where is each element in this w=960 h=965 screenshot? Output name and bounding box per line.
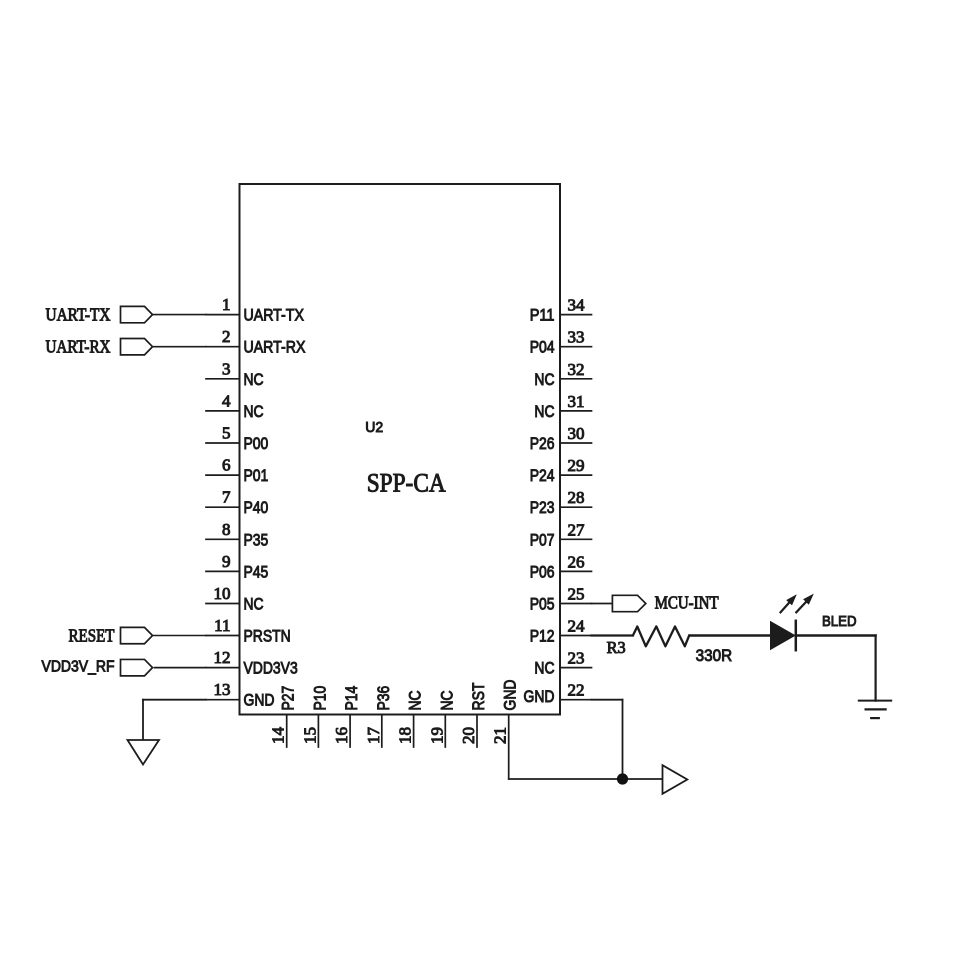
svg-text:20: 20: [459, 727, 478, 744]
svg-text:P10: P10: [310, 686, 329, 711]
svg-text:28: 28: [568, 488, 585, 507]
svg-text:NC: NC: [437, 690, 456, 710]
svg-text:18: 18: [396, 727, 415, 744]
svg-text:17: 17: [364, 727, 383, 745]
svg-text:P24: P24: [530, 466, 555, 485]
svg-text:UART-RX: UART-RX: [46, 337, 111, 357]
svg-text:VDD3V_RF: VDD3V_RF: [42, 659, 115, 676]
svg-text:P23: P23: [530, 498, 555, 517]
svg-text:NC: NC: [244, 370, 264, 389]
svg-text:NC: NC: [534, 370, 554, 389]
svg-text:2: 2: [222, 327, 231, 346]
svg-text:P45: P45: [244, 562, 269, 581]
svg-text:VDD3V3: VDD3V3: [244, 659, 298, 678]
svg-text:8: 8: [222, 520, 231, 539]
svg-text:9: 9: [222, 552, 231, 571]
svg-text:30: 30: [568, 424, 585, 443]
svg-text:330R: 330R: [696, 646, 733, 665]
svg-text:P07: P07: [530, 530, 555, 549]
svg-text:11: 11: [214, 616, 230, 635]
svg-text:R3: R3: [607, 638, 626, 657]
svg-text:33: 33: [568, 328, 585, 347]
svg-text:4: 4: [222, 391, 231, 410]
svg-text:P00: P00: [244, 434, 269, 453]
svg-text:12: 12: [214, 648, 231, 667]
svg-text:31: 31: [568, 392, 585, 411]
svg-text:GND: GND: [244, 691, 275, 710]
svg-text:P01: P01: [244, 466, 269, 485]
svg-text:RESET: RESET: [69, 626, 115, 646]
svg-text:23: 23: [568, 649, 585, 668]
svg-text:NC: NC: [406, 690, 425, 710]
svg-text:SPP-CA: SPP-CA: [367, 467, 446, 497]
svg-text:16: 16: [332, 727, 351, 744]
svg-text:34: 34: [568, 296, 586, 315]
svg-text:P35: P35: [244, 530, 269, 549]
svg-text:GND: GND: [524, 687, 555, 706]
svg-text:22: 22: [568, 681, 585, 700]
svg-text:RST: RST: [469, 683, 488, 711]
svg-text:PRSTN: PRSTN: [244, 627, 291, 646]
svg-text:P26: P26: [530, 434, 555, 453]
svg-text:1: 1: [222, 295, 231, 314]
svg-text:P11: P11: [530, 306, 555, 325]
svg-text:24: 24: [568, 617, 586, 636]
svg-text:NC: NC: [534, 402, 554, 421]
svg-text:MCU-INT: MCU-INT: [655, 593, 719, 613]
svg-text:P04: P04: [530, 338, 555, 357]
svg-text:P05: P05: [530, 595, 555, 614]
svg-text:5: 5: [222, 424, 231, 443]
svg-text:13: 13: [214, 680, 231, 699]
svg-text:GND: GND: [501, 680, 520, 711]
svg-text:7: 7: [222, 488, 231, 507]
svg-text:14: 14: [269, 727, 288, 745]
svg-text:26: 26: [568, 552, 585, 571]
svg-text:P12: P12: [530, 627, 555, 646]
svg-text:NC: NC: [534, 659, 554, 678]
svg-text:6: 6: [222, 456, 231, 475]
svg-text:UART-TX: UART-TX: [46, 305, 111, 325]
svg-text:NC: NC: [244, 402, 264, 421]
svg-text:15: 15: [300, 727, 319, 744]
svg-text:UART-RX: UART-RX: [244, 338, 306, 357]
svg-text:UART-TX: UART-TX: [244, 306, 304, 325]
svg-text:3: 3: [222, 359, 231, 378]
svg-text:19: 19: [427, 727, 446, 744]
svg-text:P40: P40: [244, 498, 269, 517]
svg-text:P36: P36: [374, 686, 393, 711]
svg-text:P27: P27: [279, 686, 298, 711]
svg-text:29: 29: [568, 456, 585, 475]
svg-text:32: 32: [568, 360, 585, 379]
svg-text:25: 25: [568, 585, 585, 604]
svg-text:BLED: BLED: [822, 614, 857, 630]
svg-text:P06: P06: [530, 562, 555, 581]
svg-text:U2: U2: [365, 419, 383, 436]
svg-text:NC: NC: [244, 595, 264, 614]
svg-text:21: 21: [491, 727, 510, 744]
svg-text:P14: P14: [342, 686, 361, 711]
svg-text:27: 27: [568, 520, 586, 539]
svg-text:10: 10: [214, 584, 231, 603]
